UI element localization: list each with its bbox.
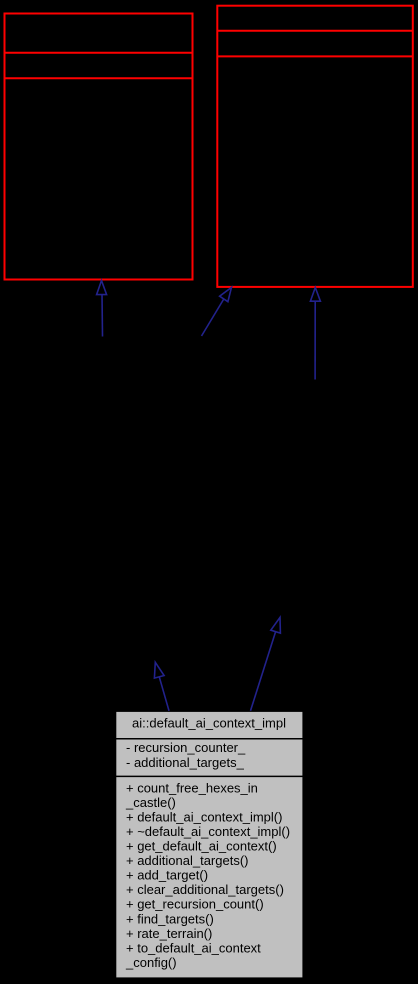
svg-text:+ add_target(): + add_target() — [126, 868, 208, 883]
inheritance arrow C: vertical wire into bottom of top-right box — [310, 288, 320, 380]
svg-text:+ to_default_ai_context: + to_default_ai_context — [126, 940, 261, 955]
svg-text:_config(): _config() — [125, 955, 177, 970]
class node ai::default_ai_context_impl (gray box) — [116, 712, 303, 978]
svg-text:_castle(): _castle() — [125, 795, 176, 810]
svg-text:- recursion_counter_: - recursion_counter_ — [126, 740, 246, 755]
svg-text:+ clear_additional_targets(): + clear_additional_targets() — [126, 882, 284, 897]
svg-text:+ rate_terrain(): + rate_terrain() — [126, 926, 212, 941]
svg-text:+ find_targets(): + find_targets() — [126, 911, 214, 926]
inheritance arrow B: diagonal wire into bottom-left of top-right box — [202, 287, 232, 336]
svg-text:+ ~default_ai_context_impl(): + ~default_ai_context_impl() — [126, 824, 290, 839]
node: truncated base class box (top-right, red) — [217, 6, 412, 287]
inheritance arrow A: wire into bottom of top-left box — [97, 281, 107, 337]
svg-text:ai::default_ai_context_impl: ai::default_ai_context_impl — [132, 715, 286, 730]
svg-text:+ default_ai_context_impl(): + default_ai_context_impl() — [126, 809, 282, 824]
svg-text:- additional_targets_: - additional_targets_ — [126, 755, 245, 770]
inheritance arrow E: wire rising left from gray class box top — [154, 662, 169, 711]
svg-text:+ count_free_hexes_in: + count_free_hexes_in — [126, 780, 258, 795]
node: truncated base class box (top-left, red) — [5, 14, 193, 280]
svg-text:+ get_recursion_count(): + get_recursion_count() — [126, 897, 264, 912]
svg-text:+ get_default_ai_context(): + get_default_ai_context() — [126, 839, 277, 854]
svg-text:+ additional_targets(): + additional_targets() — [126, 853, 249, 868]
inheritance arrow D: wire rising right from gray class box top — [251, 617, 281, 710]
